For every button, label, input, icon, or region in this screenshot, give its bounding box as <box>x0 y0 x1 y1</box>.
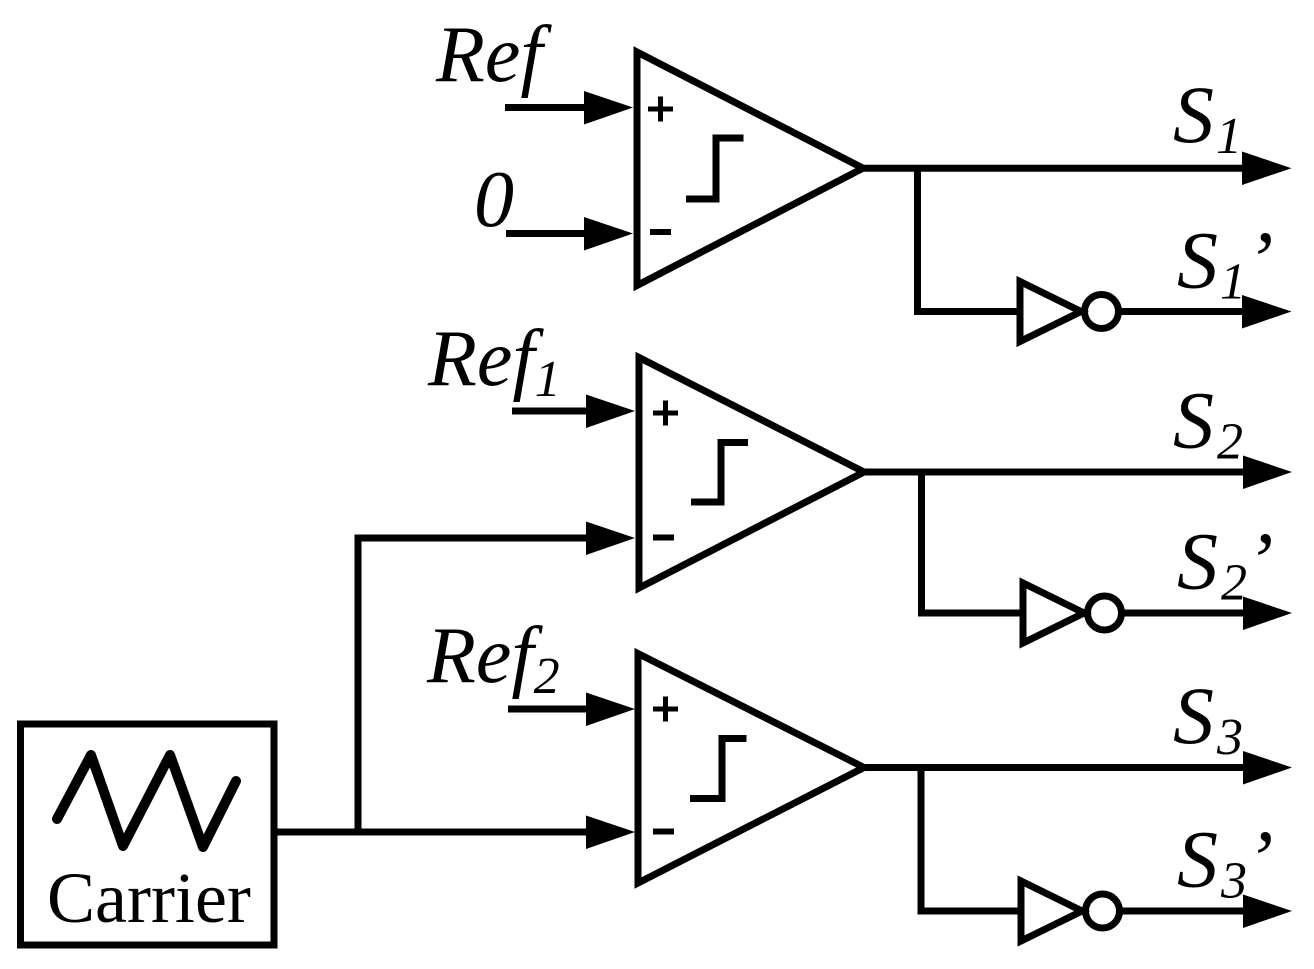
U5 minus input marker <box>653 829 674 835</box>
carrier triangle waveform <box>57 755 236 847</box>
svg-text:S3: S3 <box>1173 670 1243 766</box>
wire 0 input arrow <box>506 217 633 251</box>
wire branch U1 output to inverter U2 <box>918 168 1021 311</box>
wire U1 output to S1 <box>863 152 1292 186</box>
wire Ref2 input arrow <box>508 693 635 727</box>
U5 plus input marker <box>653 697 678 722</box>
wire carrier output to U5 minus input <box>275 816 635 850</box>
U1 hysteresis symbol <box>686 138 744 199</box>
carrier generator box <box>21 724 275 945</box>
wire carrier branch to U3 minus input <box>358 522 635 833</box>
wire U4 output to S2' <box>1122 597 1293 631</box>
U6 bubble <box>1086 894 1120 928</box>
U3 hysteresis symbol <box>691 443 748 503</box>
comparator U3 <box>639 358 864 589</box>
wire Ref1 input arrow <box>512 395 635 429</box>
U2 bubble <box>1085 295 1119 329</box>
wire U6 output to S3' <box>1120 895 1293 929</box>
inverter U2 <box>1020 282 1081 342</box>
wire U5 output to S3 <box>864 751 1292 785</box>
U3 plus input marker <box>653 401 678 426</box>
svg-text:S1’: S1’ <box>1177 215 1273 311</box>
wire Ref input arrow <box>505 91 633 125</box>
comparator U1 <box>637 52 863 286</box>
wire branch U3 output to inverter U4 <box>922 472 1024 613</box>
svg-text:S1: S1 <box>1173 69 1242 165</box>
U1 plus input marker <box>648 97 673 122</box>
svg-text:Ref: Ref <box>435 11 552 99</box>
comparator U5 <box>638 654 864 884</box>
U4 bubble <box>1088 596 1122 630</box>
U5 hysteresis symbol <box>690 739 747 799</box>
svg-text:S3’: S3’ <box>1177 814 1273 910</box>
svg-text:Carrier: Carrier <box>47 858 251 938</box>
wire U3 output to S2 <box>864 456 1292 490</box>
wire U2 output to S1' <box>1119 295 1292 329</box>
wire branch U5 output to inverter U6 <box>921 768 1021 912</box>
svg-text:Ref2: Ref2 <box>426 612 560 705</box>
svg-text:S2’: S2’ <box>1177 516 1273 612</box>
U1 minus input marker <box>650 229 671 235</box>
svg-text:Ref1: Ref1 <box>427 315 561 408</box>
inverter U4 <box>1023 583 1084 643</box>
svg-text:S2: S2 <box>1173 375 1243 471</box>
inverter U6 <box>1021 881 1082 941</box>
U3 minus input marker <box>653 535 674 541</box>
